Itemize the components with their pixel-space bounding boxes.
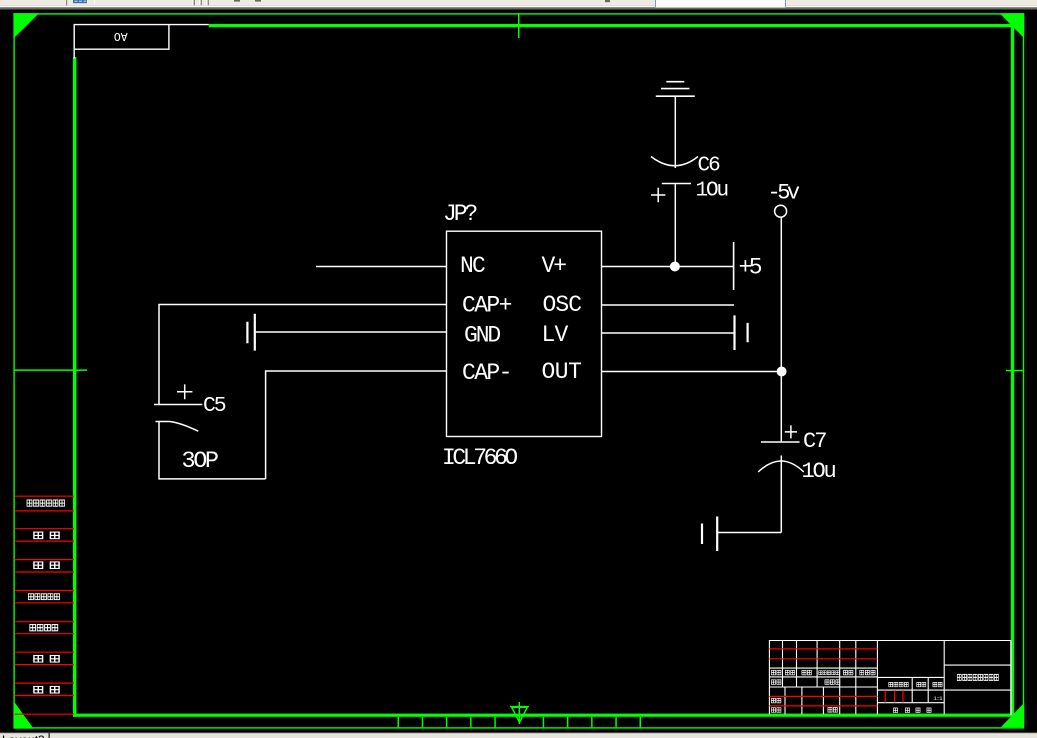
lower column rules [785, 687, 856, 714]
box5 caption glyphs [30, 625, 58, 631]
record box 5 rules [15, 622, 74, 634]
ground at top of C6 [656, 82, 695, 97]
corner triangle top-right [1000, 13, 1025, 38]
svg-text:C6: C6 [698, 154, 721, 177]
wire LV pin [602, 332, 734, 334]
svg-text:C5: C5 [203, 394, 226, 418]
table outline [769, 641, 1011, 715]
scale caption [933, 682, 942, 686]
svg-text:NC: NC [460, 253, 485, 279]
op-amp U1 : IC body JP? ICL7660 [447, 231, 602, 436]
svg-text:ICL766O: ICL766O [442, 445, 517, 471]
record box 6 rules [15, 652, 74, 664]
revision red rules [769, 649, 877, 659]
record box 3 rules [15, 560, 74, 572]
title block [769, 641, 1011, 715]
inner thick frame left [73, 57, 77, 717]
schematic labels [182, 154, 836, 484]
sheet count captions [893, 708, 931, 712]
wire C6 upper lead [674, 97, 676, 169]
power bar +5 [733, 242, 735, 290]
C6 plus sign [651, 188, 665, 202]
junction dot at OUT / -5v rail [777, 367, 787, 377]
corner triangle bottom-left [14, 702, 34, 729]
right section row rules [944, 665, 1011, 690]
wire -5v rail vertical [780, 218, 782, 442]
ground below C7 [702, 517, 717, 552]
corner triangle top-left [14, 13, 39, 38]
middle section row rules [877, 677, 944, 702]
table right edge [1010, 641, 1012, 715]
svg-text:-5v: -5v [768, 180, 800, 205]
checker caption [771, 698, 781, 703]
wire NC pin [316, 266, 447, 268]
upper column rules [783, 641, 856, 688]
outer thin frame top [13, 13, 1024, 14]
record box 7 rules [15, 683, 74, 695]
record box 4 rules [15, 591, 74, 603]
box6 caption glyphs [34, 656, 59, 663]
inner thick frame right [1011, 24, 1014, 717]
svg-text:LV: LV [542, 322, 569, 348]
centre mark top [518, 13, 520, 38]
outer thin frame left [13, 13, 14, 728]
record box 2 rules [15, 529, 74, 541]
header row captions [771, 670, 875, 675]
bottom graduation ticks [398, 717, 642, 728]
svg-text:AO: AO [114, 29, 128, 42]
main divider rules [877, 641, 944, 715]
svg-text:1:1: 1:1 [933, 695, 943, 702]
wire C7 lower lead [780, 456, 782, 533]
C7 plus sign [785, 425, 797, 438]
bottom centre datum mark [510, 702, 529, 724]
toolbar strip top [0, 0, 1037, 10]
ground right of LV pin [735, 315, 748, 350]
wire bottom loop of C5 [159, 422, 266, 479]
C5 plus sign [177, 384, 192, 399]
box4 caption glyphs [28, 594, 59, 600]
svg-text:CAP-: CAP- [462, 360, 511, 386]
design row captions [771, 680, 839, 685]
box3 caption glyphs [34, 562, 59, 569]
A0 zone box (white) [74, 25, 209, 59]
process caption [771, 708, 781, 713]
capacitor C5 plates [154, 404, 202, 406]
outer thin frame right [1023, 13, 1024, 728]
svg-text:1Ou: 1Ou [696, 180, 728, 203]
wire C7 to ground [718, 532, 781, 534]
junction dot at V+ / C6 [670, 262, 680, 272]
centre mark right [1006, 370, 1024, 372]
svg-text:GND: GND [464, 323, 500, 349]
centre mark left [13, 369, 87, 371]
ground at GND pin (left) [247, 314, 254, 351]
drawing title glyphs [957, 674, 998, 680]
weight caption [917, 682, 926, 686]
svg-text:OSC: OSC [543, 292, 582, 318]
signature red rules [769, 696, 877, 706]
svg-text:+5: +5 [739, 254, 762, 280]
box2 caption glyphs [34, 532, 59, 539]
left section row rules [769, 668, 877, 687]
capacitor C7 plates [761, 441, 800, 443]
svg-text:1Ou: 1Ou [802, 459, 836, 484]
svg-text:Layout3: Layout3 [2, 733, 45, 738]
svg-text:JP?: JP? [443, 201, 477, 227]
scale cell red ticks [885, 690, 903, 702]
wire V+ pin [602, 266, 734, 268]
box1 caption glyphs [27, 500, 64, 506]
record box 1 rules [15, 496, 74, 511]
inner thick frame bottom [73, 714, 1014, 717]
svg-text:C7: C7 [803, 429, 826, 454]
middle section column rules [912, 677, 928, 702]
wire GND pin [256, 331, 447, 333]
wire C6 lower lead [674, 184, 676, 267]
box7 caption glyphs [34, 686, 59, 693]
power port -5v circle [775, 205, 787, 217]
svg-text:OUT: OUT [542, 359, 582, 385]
stage mark caption [889, 682, 909, 686]
inner thick frame top [209, 24, 1014, 27]
left margin record boxes [15, 496, 74, 714]
svg-text:V+: V+ [542, 253, 567, 279]
wire CAP- pin [266, 371, 447, 479]
wire OUT pin [602, 371, 782, 373]
wire CAP+ pin [159, 305, 447, 405]
wire OSC pin [602, 304, 735, 306]
corner triangle bottom-right [1001, 703, 1024, 728]
outer thin frame bottom [13, 727, 1024, 728]
capacitor C6 plates [651, 157, 698, 166]
svg-text:CAP+: CAP+ [462, 293, 512, 319]
bottom rule [15, 713, 74, 715]
svg-text:3OP: 3OP [182, 448, 218, 475]
approve caption [828, 707, 838, 712]
bottom tab strip [0, 732, 1037, 738]
